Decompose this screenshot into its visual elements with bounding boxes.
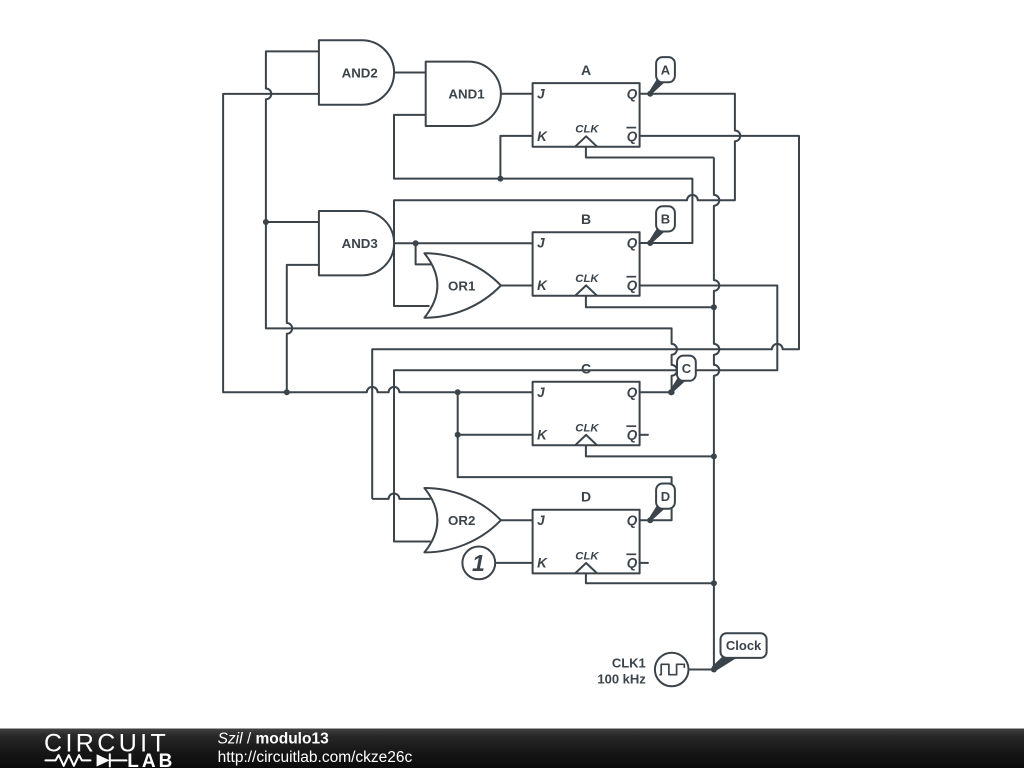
svg-text:K: K (537, 428, 548, 443)
svg-text:CLK: CLK (575, 124, 599, 136)
svg-text:Q: Q (627, 129, 638, 144)
svg-text:D: D (581, 489, 591, 505)
svg-text:CLK: CLK (575, 422, 599, 434)
svg-text:C: C (682, 361, 692, 376)
svg-text:A: A (581, 62, 591, 78)
svg-text:OR2: OR2 (448, 513, 475, 528)
svg-text:Q: Q (627, 556, 638, 571)
svg-text:Clock: Clock (726, 638, 762, 653)
svg-text:100 kHz: 100 kHz (597, 671, 646, 686)
svg-text:J: J (537, 236, 545, 251)
svg-text:K: K (537, 556, 548, 571)
svg-text:K: K (537, 278, 548, 293)
svg-text:D: D (661, 489, 670, 504)
svg-text:K: K (537, 129, 548, 144)
svg-text:AND3: AND3 (342, 236, 378, 251)
svg-text:CLK: CLK (575, 550, 599, 562)
svg-text:CLK1: CLK1 (612, 655, 646, 670)
svg-text:A: A (661, 63, 671, 78)
svg-text:J: J (537, 87, 545, 102)
svg-text:CLK: CLK (575, 273, 599, 285)
svg-text:Q: Q (627, 236, 638, 251)
svg-text:C: C (581, 361, 591, 377)
svg-text:AND1: AND1 (448, 87, 485, 102)
svg-text:http://circuitlab.com/ckze26c: http://circuitlab.com/ckze26c (218, 749, 413, 766)
svg-text:Q: Q (627, 513, 638, 528)
svg-text:Q: Q (627, 278, 638, 293)
svg-text:1: 1 (472, 550, 485, 576)
svg-text:Q: Q (627, 428, 638, 443)
svg-text:B: B (661, 212, 670, 227)
svg-text:AND2: AND2 (342, 65, 378, 80)
svg-text:B: B (581, 211, 591, 227)
svg-text:Szil / modulo13: Szil / modulo13 (218, 731, 329, 748)
svg-text:J: J (537, 513, 545, 528)
svg-text:Q: Q (627, 385, 638, 400)
svg-text:Q: Q (627, 87, 638, 102)
svg-text:J: J (537, 385, 545, 400)
svg-text:OR1: OR1 (448, 278, 476, 293)
svg-text:LAB: LAB (127, 751, 175, 768)
